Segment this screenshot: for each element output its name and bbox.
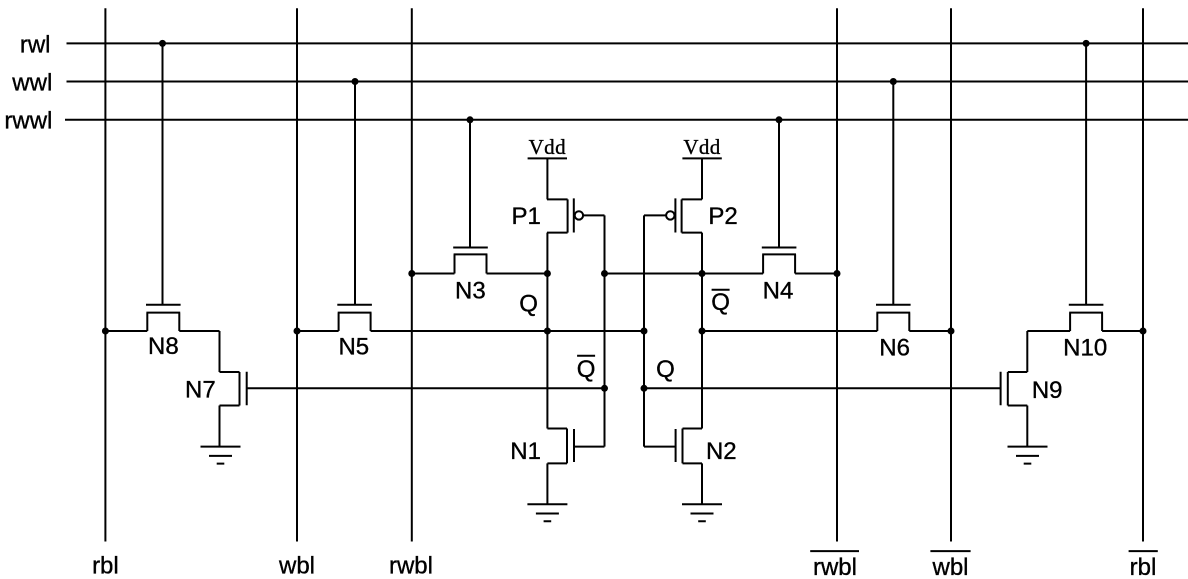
svg-text:Q: Q — [656, 356, 675, 383]
svg-text:P1: P1 — [512, 203, 541, 230]
svg-text:wwl: wwl — [11, 70, 52, 97]
svg-text:rbl: rbl — [1130, 554, 1157, 579]
svg-text:N4: N4 — [763, 277, 794, 304]
svg-text:Vdd: Vdd — [529, 135, 566, 159]
svg-text:Vdd: Vdd — [683, 135, 720, 159]
svg-text:rwbl: rwbl — [813, 554, 857, 579]
svg-text:N6: N6 — [879, 335, 910, 362]
svg-text:N5: N5 — [338, 334, 369, 361]
svg-text:rwwl: rwwl — [4, 108, 52, 135]
svg-text:N7: N7 — [185, 376, 216, 403]
svg-text:N2: N2 — [706, 438, 737, 465]
svg-text:N10: N10 — [1063, 335, 1107, 362]
svg-text:Q: Q — [577, 356, 596, 383]
svg-text:Q: Q — [711, 289, 730, 316]
svg-text:wbl: wbl — [278, 553, 315, 579]
svg-text:N3: N3 — [455, 277, 486, 304]
svg-text:rbl: rbl — [92, 553, 119, 579]
svg-text:Q: Q — [519, 291, 538, 318]
svg-text:N9: N9 — [1032, 377, 1063, 404]
svg-text:N8: N8 — [148, 333, 179, 360]
svg-text:P2: P2 — [708, 203, 737, 230]
svg-text:rwbl: rwbl — [389, 553, 433, 579]
svg-text:wbl: wbl — [931, 554, 968, 579]
svg-text:N1: N1 — [510, 438, 541, 465]
svg-text:rwl: rwl — [20, 32, 51, 59]
